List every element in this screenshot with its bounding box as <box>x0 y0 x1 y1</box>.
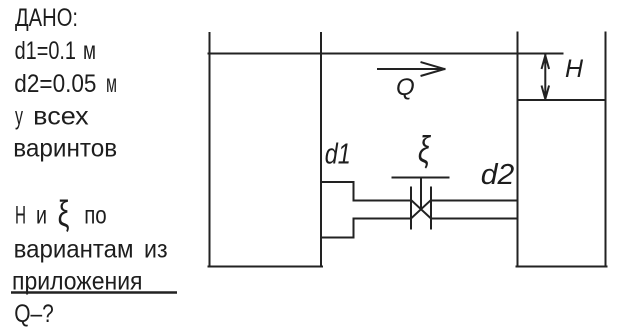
flow arrow Q <box>378 62 445 75</box>
underline <box>11 291 177 293</box>
svg-text:Q: Q <box>396 74 415 101</box>
pipe d2 <box>354 201 518 219</box>
left tank <box>209 33 323 267</box>
svg-text:из: из <box>144 235 168 263</box>
svg-text:Н: Н <box>15 201 26 229</box>
svg-text:вариантам: вариантам <box>14 235 134 263</box>
svg-text:м: м <box>106 70 117 98</box>
svg-text:и: и <box>36 201 47 229</box>
svg-text:варинтов: варинтов <box>13 135 117 163</box>
svg-text:м: м <box>83 37 96 65</box>
valve stem <box>393 178 449 210</box>
svg-text:приложения: приложения <box>12 267 143 295</box>
right tank <box>517 33 607 267</box>
svg-text:d2: d2 <box>481 159 515 191</box>
pipe d1 <box>321 182 354 238</box>
svg-text:ξ: ξ <box>58 193 70 234</box>
water level line right tank <box>518 99 606 101</box>
svg-text:по: по <box>84 201 107 229</box>
svg-text:H: H <box>565 55 584 83</box>
valve body <box>411 188 431 229</box>
water level line upper <box>209 53 563 55</box>
svg-text:d2=0.05: d2=0.05 <box>14 70 96 98</box>
svg-text:ξ: ξ <box>418 129 431 170</box>
svg-text:d1=0.1: d1=0.1 <box>15 37 76 65</box>
svg-text:Q–?: Q–? <box>14 300 54 328</box>
svg-text:у: у <box>15 103 23 131</box>
svg-text:всех: всех <box>33 103 89 131</box>
dimension H arrow <box>542 56 549 100</box>
svg-text:ДАНО:: ДАНО: <box>15 4 78 32</box>
svg-text:d1: d1 <box>325 139 351 171</box>
